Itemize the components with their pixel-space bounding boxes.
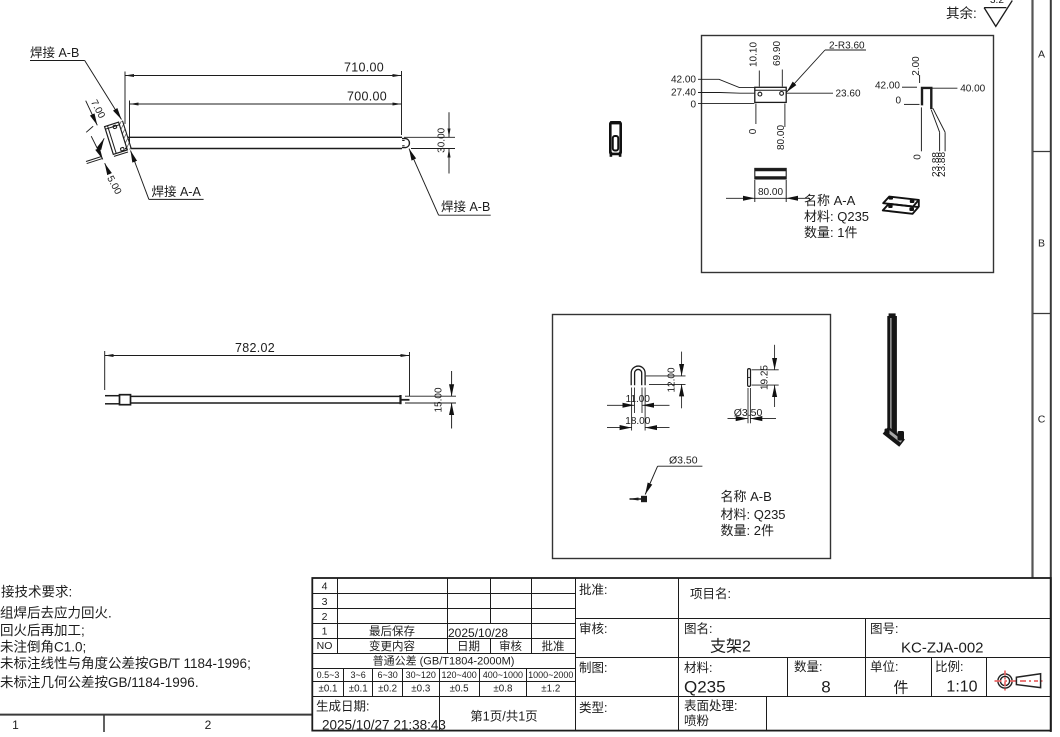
svg-text:0: 0: [912, 154, 923, 160]
svg-text:80.00: 80.00: [776, 125, 787, 150]
svg-text:KC-ZJA-002: KC-ZJA-002: [901, 640, 984, 657]
svg-text:1:10: 1:10: [946, 679, 977, 696]
svg-text:42.00: 42.00: [671, 75, 696, 86]
svg-text:6~30: 6~30: [377, 670, 397, 680]
svg-text:12.00: 12.00: [667, 367, 678, 392]
svg-text:2025/10/27 21:38:43: 2025/10/27 21:38:43: [322, 718, 446, 733]
svg-text:类型:: 类型:: [579, 701, 607, 715]
svg-text:Ø3.50: Ø3.50: [734, 407, 763, 419]
svg-text:782.02: 782.02: [235, 341, 275, 355]
svg-text:23.88: 23.88: [937, 152, 948, 177]
svg-text:±0.1: ±0.1: [319, 684, 338, 695]
svg-text:焊接 A-B: 焊接 A-B: [441, 199, 490, 214]
svg-text:±1.2: ±1.2: [541, 684, 560, 695]
svg-text:Ø3.50: Ø3.50: [669, 455, 698, 467]
svg-text:23.60: 23.60: [836, 89, 861, 100]
svg-text:项目名:: 项目名:: [690, 586, 731, 601]
svg-text:其余:: 其余:: [946, 5, 977, 21]
svg-text:400~1000: 400~1000: [483, 670, 523, 680]
svg-text:4: 4: [322, 581, 328, 593]
svg-text:27.40: 27.40: [671, 88, 696, 99]
svg-text:比例:: 比例:: [935, 660, 963, 674]
svg-text:80.00: 80.00: [758, 187, 783, 198]
svg-text:批准:: 批准:: [579, 582, 607, 597]
svg-text:图号:: 图号:: [870, 622, 898, 636]
svg-text:未标注几何公差按GB/1184-1996.: 未标注几何公差按GB/1184-1996.: [0, 675, 199, 690]
svg-text:数量: 2件: 数量: 2件: [721, 523, 774, 538]
svg-text:日期: 日期: [457, 640, 480, 653]
svg-text:Q235: Q235: [684, 678, 726, 697]
svg-text:700.00: 700.00: [347, 90, 387, 104]
svg-text:审核:: 审核:: [579, 621, 607, 636]
svg-text:1000~2000: 1000~2000: [528, 670, 573, 680]
svg-text:30.00: 30.00: [437, 127, 448, 152]
svg-text:第1页/共1页: 第1页/共1页: [470, 710, 537, 724]
svg-text:回火后再加工;: 回火后再加工;: [0, 623, 85, 638]
svg-text:40.00: 40.00: [960, 84, 985, 95]
svg-text:制图:: 制图:: [579, 661, 607, 675]
svg-text:120~400: 120~400: [441, 670, 476, 680]
svg-text:0: 0: [895, 95, 901, 106]
svg-text:接技术要求:: 接技术要求:: [1, 584, 72, 600]
svg-text:±0.5: ±0.5: [450, 684, 470, 695]
svg-text:支架2: 支架2: [710, 638, 751, 656]
svg-text:材料:: 材料:: [684, 661, 712, 675]
svg-text:NO: NO: [317, 640, 333, 652]
svg-text:名称 A-B: 名称 A-B: [721, 489, 772, 504]
svg-text:2: 2: [205, 718, 212, 732]
svg-text:2: 2: [322, 611, 328, 623]
svg-text:名称 A-A: 名称 A-A: [804, 193, 856, 208]
svg-text:喷粉: 喷粉: [684, 713, 710, 728]
svg-text:11.00: 11.00: [626, 394, 651, 405]
svg-text:A: A: [1038, 49, 1045, 61]
svg-text:19.25: 19.25: [760, 365, 771, 390]
svg-text:数量:: 数量:: [794, 659, 822, 674]
svg-text:3~6: 3~6: [351, 670, 366, 680]
svg-text:焊接 A-A: 焊接 A-A: [152, 184, 202, 199]
svg-text:C: C: [1038, 414, 1046, 426]
svg-text:±0.3: ±0.3: [411, 684, 431, 695]
svg-text:B: B: [1038, 238, 1045, 250]
svg-text:单位:: 单位:: [870, 659, 898, 674]
svg-text:42.00: 42.00: [875, 81, 900, 92]
svg-text:未注倒角C1.0;: 未注倒角C1.0;: [0, 640, 86, 655]
svg-text:±0.1: ±0.1: [349, 684, 368, 695]
svg-text:0: 0: [748, 128, 759, 134]
svg-text:生成日期:: 生成日期:: [316, 700, 369, 714]
svg-text:2-R3.60: 2-R3.60: [829, 41, 865, 52]
svg-text:图名:: 图名:: [684, 621, 712, 636]
svg-text:2025/10/28: 2025/10/28: [448, 626, 508, 640]
svg-text:变更内容: 变更内容: [369, 639, 415, 653]
svg-text:±0.2: ±0.2: [378, 684, 397, 695]
svg-text:最后保存: 最后保存: [369, 624, 415, 638]
svg-text:表面处理:: 表面处理:: [684, 699, 737, 713]
svg-text:710.00: 710.00: [344, 61, 384, 75]
svg-text:普通公差 (GB/T1804-2000M): 普通公差 (GB/T1804-2000M): [373, 654, 515, 668]
svg-text:审核: 审核: [499, 639, 522, 653]
svg-text:1: 1: [12, 718, 19, 732]
svg-text:批准: 批准: [542, 639, 565, 653]
svg-text:8: 8: [821, 678, 830, 697]
svg-text:0.5~3: 0.5~3: [317, 670, 340, 680]
svg-text:10.10: 10.10: [749, 42, 760, 67]
svg-text:18.00: 18.00: [625, 416, 650, 427]
svg-text:0: 0: [690, 99, 696, 110]
svg-text:3: 3: [322, 596, 328, 608]
svg-text:未标注线性与角度公差按GB/T 1184-1996;: 未标注线性与角度公差按GB/T 1184-1996;: [0, 656, 251, 671]
svg-text:69.90: 69.90: [772, 41, 783, 66]
svg-text:件: 件: [893, 680, 908, 697]
svg-text:材料: Q235: 材料: Q235: [721, 507, 786, 522]
svg-text:2.00: 2.00: [911, 56, 922, 76]
svg-text:1: 1: [322, 626, 328, 638]
svg-text:数量: 1件: 数量: 1件: [804, 225, 857, 240]
svg-text:焊接 A-B: 焊接 A-B: [30, 45, 79, 60]
svg-text:材料: Q235: 材料: Q235: [804, 209, 869, 224]
svg-text:3.2: 3.2: [990, 0, 1004, 6]
svg-text:30~120: 30~120: [406, 670, 436, 680]
svg-text:组焊后去应力回火.: 组焊后去应力回火.: [0, 605, 112, 621]
svg-text:15.00: 15.00: [434, 387, 445, 412]
svg-text:±0.8: ±0.8: [493, 684, 513, 695]
